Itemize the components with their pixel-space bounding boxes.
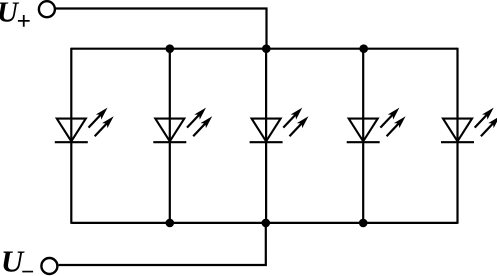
- wire branch 5: [456, 48, 458, 224]
- wire U+ to feed corner and down to top bus: [56, 9, 267, 49]
- svg-text:−: −: [22, 259, 34, 276]
- wire branch 1: [70, 48, 72, 224]
- wire branch 4: [362, 49, 364, 223]
- LED D3: [250, 108, 309, 143]
- wire from U- terminal and up to bottom bus: [59, 223, 266, 265]
- junction dot bottom branch 2: [166, 219, 175, 228]
- junction dot top branch 2: [166, 44, 175, 53]
- svg-text:+: +: [17, 9, 31, 35]
- LED D5: [441, 108, 497, 143]
- junction dot bottom branch 3: [262, 219, 271, 228]
- LED D2: [153, 108, 212, 143]
- junction dot top branch 3: [262, 44, 271, 53]
- LED D4: [347, 108, 406, 143]
- junction dot top branch 4: [359, 44, 368, 53]
- wire top bus: [71, 48, 457, 50]
- junction dot bottom branch 4: [359, 219, 368, 228]
- wire branch 3: [265, 49, 267, 223]
- wire bottom bus: [71, 222, 457, 224]
- terminal U-: [41, 258, 57, 274]
- terminal U+: [39, 1, 55, 17]
- LED D1: [55, 108, 114, 143]
- wire branch 2: [169, 49, 171, 223]
